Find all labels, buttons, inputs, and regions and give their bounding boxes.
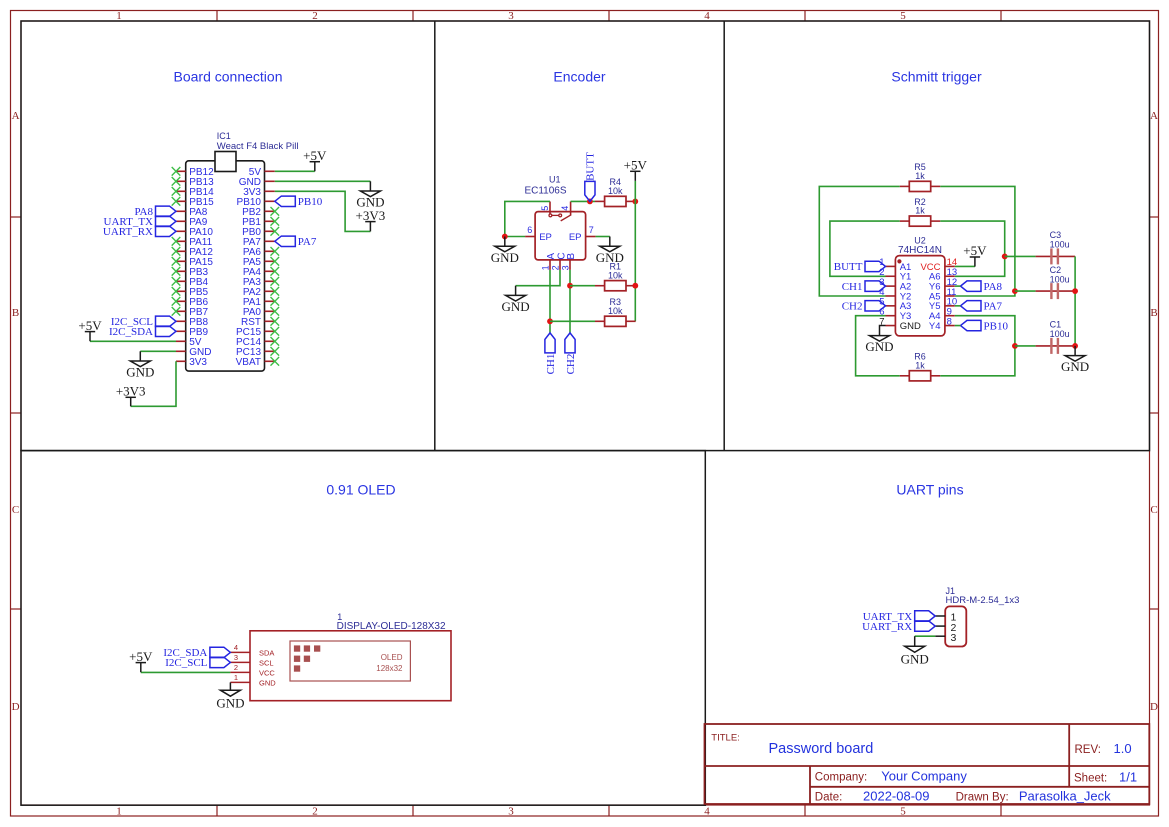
wire — [516, 270, 560, 286]
capacitor C2 100u — [1036, 265, 1076, 299]
junction (U1 pin B / R1) — [567, 283, 573, 289]
svg-text:3: 3 — [950, 632, 956, 644]
svg-text:B: B — [1150, 307, 1157, 319]
wire — [940, 316, 1015, 376]
svg-text:GND: GND — [1061, 359, 1089, 374]
junction (C2 / gnd rail) — [1072, 288, 1078, 294]
svg-text:10k: 10k — [608, 186, 623, 196]
junction (R1 / +5V rail) — [632, 283, 638, 289]
junction (U1 pin A / R3) — [547, 318, 553, 324]
svg-text:4: 4 — [704, 806, 710, 818]
svg-text:8: 8 — [947, 316, 952, 327]
svg-text:CH2: CH2 — [842, 301, 863, 313]
wire — [830, 221, 900, 276]
svg-text:B: B — [566, 253, 577, 260]
junction (R6 / A4 / C1) — [1012, 343, 1018, 349]
wire — [141, 671, 231, 673]
svg-text:SCL: SCL — [259, 659, 274, 668]
svg-text:Date:: Date: — [815, 791, 843, 803]
svg-text:Schmitt trigger: Schmitt trigger — [891, 69, 982, 85]
svg-text:B: B — [12, 307, 19, 319]
svg-text:2: 2 — [234, 663, 238, 672]
svg-text:3: 3 — [508, 806, 514, 818]
svg-text:7: 7 — [589, 225, 594, 235]
net flag CH1 — [545, 333, 557, 375]
power +5V (encoder) — [624, 158, 648, 181]
svg-text:6: 6 — [527, 225, 532, 235]
rotary encoder U1 EC1106S — [524, 175, 595, 271]
svg-text:GND: GND — [216, 695, 244, 710]
wire — [955, 265, 975, 267]
wire — [955, 285, 961, 287]
resistor R6 1k — [900, 352, 941, 381]
svg-text:OLED: OLED — [381, 653, 403, 662]
net flag I2C_SDA (OLED) — [163, 647, 230, 659]
wire — [1005, 255, 1036, 257]
svg-text:GND: GND — [901, 651, 929, 666]
no-connect x-marks on IC1 unused pins — [172, 167, 279, 366]
svg-text:+5V: +5V — [129, 649, 153, 664]
ground (J1 pin 3) — [901, 646, 929, 666]
svg-text:+3V3: +3V3 — [116, 384, 146, 399]
svg-text:UART_RX: UART_RX — [103, 226, 153, 238]
wire (J1 pin3 to ground) — [914, 636, 916, 646]
net flag PB10 (U2 Y4) — [961, 320, 1009, 332]
svg-text:74HC14N: 74HC14N — [898, 245, 942, 256]
wire — [596, 236, 610, 238]
svg-text:PB10: PB10 — [984, 320, 1009, 332]
wire — [549, 270, 551, 333]
svg-text:2: 2 — [312, 806, 318, 818]
junction (R5 / A5 / C2) — [1012, 288, 1018, 294]
svg-text:1.0: 1.0 — [1114, 741, 1132, 756]
net flag I2C_SDA — [109, 326, 176, 338]
svg-text:Board connection: Board connection — [174, 69, 283, 85]
svg-text:1/1: 1/1 — [1119, 770, 1137, 785]
resistor R3 10k — [595, 297, 636, 326]
svg-text:3V3: 3V3 — [189, 357, 207, 368]
wire — [1015, 290, 1036, 292]
svg-text:1: 1 — [116, 806, 122, 818]
svg-text:PB10: PB10 — [298, 196, 323, 208]
svg-text:Company:: Company: — [815, 772, 867, 784]
junction (R4 / +5V rail) — [632, 199, 638, 205]
svg-text:+5V: +5V — [303, 148, 327, 163]
svg-text:EP: EP — [569, 232, 582, 243]
ground (IC1 GND pin left) — [126, 351, 154, 379]
net flag PA7 — [275, 236, 317, 248]
svg-text:VCC: VCC — [259, 669, 275, 678]
net flag BUTT — [585, 152, 597, 202]
svg-text:2022-08-09: 2022-08-09 — [863, 788, 930, 803]
hex schmitt inverter U2 74HC14N — [879, 236, 957, 336]
wire — [505, 201, 550, 236]
resistor R2 1k — [900, 197, 941, 226]
wire — [275, 191, 371, 231]
svg-text:UART pins: UART pins — [896, 482, 963, 498]
svg-text:D: D — [1150, 701, 1158, 713]
junction (U1 EP-left / GND) — [502, 234, 508, 240]
svg-text:VBAT: VBAT — [236, 357, 261, 368]
net flag I2C_SCL (OLED) — [165, 657, 230, 669]
svg-text:U2: U2 — [914, 236, 926, 246]
svg-text:GND: GND — [259, 679, 276, 688]
net flag BUTT (U2 A1) — [834, 261, 886, 273]
net flag UART_RX (J1) — [862, 621, 935, 633]
resistor R1 10k — [595, 262, 636, 291]
svg-text:10k: 10k — [608, 306, 623, 316]
net flag CH2 (U2 A3) — [842, 301, 886, 313]
display module DISPLAY-OLED-128X32 — [230, 612, 451, 701]
wire — [131, 361, 176, 406]
wire — [275, 170, 315, 172]
ground (U1 EP left) — [491, 237, 519, 265]
svg-text:CH1: CH1 — [842, 281, 863, 293]
capacitor C3 100u — [1036, 230, 1076, 264]
ground (IC1 GND pin right) — [356, 181, 384, 209]
svg-text:1k: 1k — [915, 360, 925, 370]
net flag PA8 (U2 Y6) — [961, 281, 1003, 293]
svg-text:1: 1 — [234, 673, 238, 682]
svg-text:PA7: PA7 — [298, 236, 317, 248]
resistor R4 10k — [595, 177, 636, 206]
svg-text:DISPLAY-OLED-128X32: DISPLAY-OLED-128X32 — [337, 621, 446, 632]
svg-text:A: A — [12, 110, 20, 122]
wire — [915, 635, 936, 637]
svg-text:Parasolka_Jeck: Parasolka_Jeck — [1019, 789, 1111, 804]
svg-text:C: C — [1150, 504, 1157, 516]
svg-text:100u: 100u — [1050, 329, 1070, 339]
net flag UART_TX — [104, 216, 176, 228]
wire — [275, 180, 371, 182]
svg-text:UART_RX: UART_RX — [862, 621, 912, 633]
wire — [955, 325, 961, 327]
svg-text:Your Company: Your Company — [881, 769, 967, 784]
svg-text:+3V3: +3V3 — [356, 208, 386, 223]
wire (U2 GND pin) — [880, 325, 886, 327]
svg-text:D: D — [12, 701, 20, 713]
svg-text:C: C — [12, 504, 19, 516]
svg-text:Y4: Y4 — [929, 321, 941, 332]
ground (capacitor rail) — [1061, 346, 1089, 374]
svg-text:Encoder: Encoder — [553, 69, 605, 85]
ground (U1 pin C) — [502, 286, 530, 314]
svg-text:PA7: PA7 — [984, 301, 1003, 313]
svg-text:3: 3 — [560, 265, 570, 270]
wire — [1074, 256, 1076, 346]
net flag PB10 — [275, 196, 323, 208]
svg-text:TITLE:: TITLE: — [711, 732, 740, 743]
svg-text:100u: 100u — [1050, 274, 1070, 284]
svg-text:4: 4 — [234, 643, 238, 652]
mcu IC1 Weact F4 Black Pill — [176, 131, 298, 371]
power +3V3 (left) — [116, 384, 146, 407]
svg-text:3: 3 — [234, 653, 238, 662]
svg-text:5: 5 — [900, 806, 906, 818]
svg-text:U1: U1 — [549, 175, 561, 185]
svg-text:4: 4 — [560, 206, 570, 211]
svg-text:EP: EP — [539, 232, 552, 243]
wire — [955, 305, 961, 307]
svg-text:+5V: +5V — [624, 158, 648, 173]
svg-text:128x32: 128x32 — [376, 664, 403, 673]
ground (U2 pin 7) — [865, 326, 893, 354]
wire — [140, 350, 176, 352]
wire — [1015, 345, 1036, 347]
svg-text:+5V: +5V — [78, 318, 102, 333]
capacitor C1 100u — [1036, 320, 1076, 354]
wire (OLED GND pin) — [229, 682, 231, 690]
junction (BUTT net) — [587, 199, 593, 205]
junction (R2 / A6 / C3) — [1002, 254, 1008, 260]
wire — [940, 186, 1015, 296]
svg-text:Weact F4 Black Pill: Weact F4 Black Pill — [217, 141, 299, 152]
wire — [550, 320, 595, 322]
title block — [705, 724, 1150, 804]
ground (OLED GND) — [216, 690, 244, 710]
svg-text:Sheet:: Sheet: — [1074, 773, 1107, 785]
svg-text:SDA: SDA — [259, 649, 274, 658]
svg-text:GND: GND — [865, 339, 893, 354]
wire — [569, 270, 571, 333]
svg-text:BUTT: BUTT — [834, 261, 863, 273]
wire — [570, 285, 595, 287]
wire — [856, 316, 900, 376]
svg-text:GND: GND — [900, 321, 921, 332]
svg-text:0.91 OLED: 0.91 OLED — [326, 482, 395, 498]
net flag CH2 — [565, 333, 577, 375]
svg-text:2: 2 — [551, 265, 561, 270]
net flag PA8 — [134, 206, 176, 218]
svg-text:IC1: IC1 — [217, 131, 231, 141]
ground (U1 EP right) — [596, 237, 624, 265]
svg-text:1k: 1k — [915, 206, 925, 216]
wire — [90, 340, 176, 342]
wire — [940, 221, 1004, 276]
svg-text:I2C_SDA: I2C_SDA — [109, 326, 153, 338]
svg-text:5: 5 — [540, 206, 550, 211]
power +5V (IC1 5V pin left) — [78, 318, 102, 341]
svg-text:Drawn By:: Drawn By: — [956, 792, 1009, 804]
svg-text:HDR-M-2.54_1x3: HDR-M-2.54_1x3 — [946, 595, 1020, 606]
svg-text:Password board: Password board — [769, 741, 874, 757]
svg-text:10k: 10k — [608, 270, 623, 280]
svg-text:BUTT: BUTT — [585, 152, 597, 181]
header J1 HDR-M-2.54_1x3 — [935, 586, 1019, 647]
power +5V (U2 VCC) — [963, 243, 987, 266]
wire — [634, 181, 636, 321]
svg-text:CH2: CH2 — [565, 354, 577, 375]
svg-text:PA8: PA8 — [984, 281, 1003, 293]
svg-text:100u: 100u — [1050, 240, 1070, 250]
svg-text:GND: GND — [491, 250, 519, 265]
svg-text:A: A — [1150, 110, 1158, 122]
power +5V (OLED VCC) — [129, 649, 153, 672]
power +5V (IC1 5V pin) — [303, 148, 327, 171]
wire — [819, 186, 899, 296]
net flag PA7 (U2 Y5) — [961, 301, 1003, 313]
net flag UART_RX — [103, 226, 176, 238]
svg-text:EC1106S: EC1106S — [524, 186, 566, 197]
svg-text:I2C_SCL: I2C_SCL — [165, 657, 207, 669]
net flag UART_TX (J1) — [863, 611, 935, 623]
resistor R5 1k — [900, 162, 941, 191]
svg-text:GND: GND — [126, 365, 154, 380]
svg-text:1: 1 — [540, 265, 550, 270]
net flag I2C_SCL — [111, 316, 176, 328]
junction (C1 / gnd rail) — [1072, 343, 1078, 349]
svg-text:CH1: CH1 — [545, 354, 557, 375]
svg-text:+5V: +5V — [963, 243, 987, 258]
svg-text:GND: GND — [502, 299, 530, 314]
wire — [571, 200, 595, 202]
power +3V3 (right) — [356, 208, 386, 232]
svg-text:1k: 1k — [915, 171, 925, 181]
net flag CH1 (U2 A2) — [842, 281, 886, 293]
svg-text:REV:: REV: — [1075, 744, 1101, 756]
